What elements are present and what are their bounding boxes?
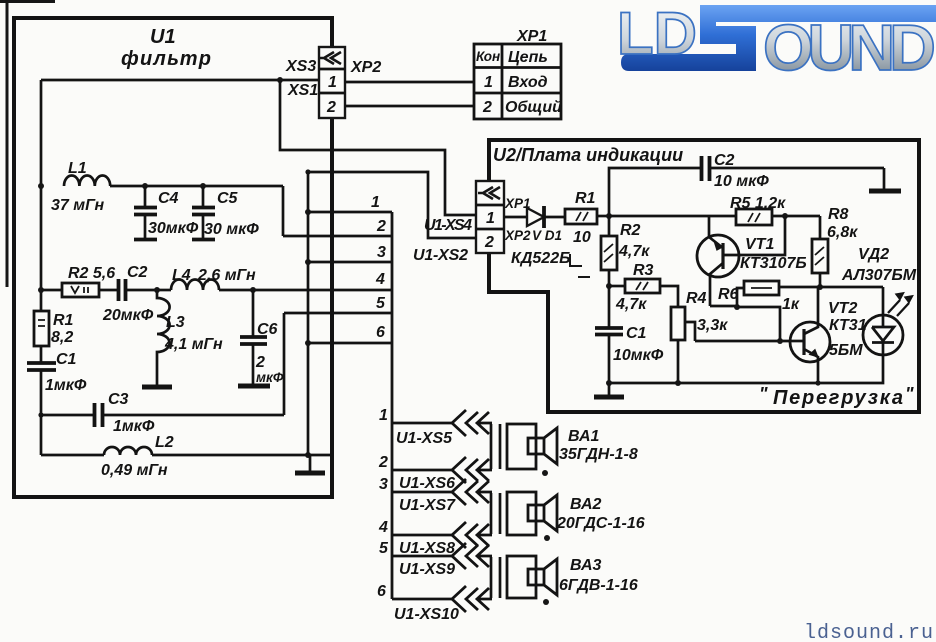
plug arrow in cell xyxy=(478,187,500,199)
svg-text:С1: С1 xyxy=(56,351,77,368)
capacitor C2 (10 мкФ) xyxy=(702,152,885,190)
svg-text:R2 5,6: R2 5,6 xyxy=(68,265,115,282)
wire ladder row2 xyxy=(283,235,392,238)
resistor R8 (6,8к) vertical xyxy=(812,206,858,287)
plug/socket U1-XS5 xyxy=(452,410,492,436)
svg-text:10: 10 xyxy=(573,229,591,246)
capacitor C6 (2мкФ) xyxy=(240,290,284,385)
leader marks xyxy=(570,254,582,266)
wire ladder row5 xyxy=(284,312,392,315)
transistor VT1 КТ3107Б xyxy=(697,216,807,306)
diode VD1 КД522Б xyxy=(511,206,590,277)
node dot row6 xyxy=(305,340,311,346)
wire R1 to node xyxy=(597,215,609,218)
resistor R1 (10) xyxy=(565,190,597,246)
node dot row1 xyxy=(305,209,311,215)
svg-text:XP1: XP1 xyxy=(516,28,547,45)
svg-text:ВА2: ВА2 xyxy=(570,496,602,513)
wire C1 node down xyxy=(40,415,43,455)
svg-text:R3: R3 xyxy=(633,262,654,279)
capacitor C2 (20мкФ) xyxy=(102,264,157,324)
svg-text:": " xyxy=(905,384,914,404)
plug/socket U1-XS8 xyxy=(452,522,492,548)
wire L1 row xyxy=(110,185,283,188)
resistor R1 (8,2) vertical xyxy=(34,311,74,346)
svg-text:1: 1 xyxy=(379,407,388,424)
svg-text:КТ3107Б: КТ3107Б xyxy=(740,255,807,272)
svg-text:3,3к: 3,3к xyxy=(697,317,728,334)
svg-text:1к: 1к xyxy=(782,296,800,313)
node dot C1 bottom xyxy=(38,412,43,417)
tap 2 wire xyxy=(392,469,452,472)
loudspeaker BA2 20ГДС-1-16 xyxy=(491,492,645,541)
svg-text:1мкФ: 1мкФ xyxy=(45,377,87,394)
svg-text:XS1: XS1 xyxy=(287,82,318,99)
svg-text:VT1: VT1 xyxy=(745,236,774,253)
svg-text:1мкФ: 1мкФ xyxy=(113,418,155,435)
plug arrow in XS3 cell xyxy=(320,52,341,64)
svg-text:4: 4 xyxy=(375,271,385,288)
svg-text:30мкФ: 30мкФ xyxy=(148,220,199,237)
svg-text:": " xyxy=(759,384,768,404)
svg-text:R2: R2 xyxy=(620,222,641,239)
svg-text:OUND: OUND xyxy=(763,11,936,84)
capacitor C3 (1мкФ) xyxy=(95,391,155,435)
LDSound logo xyxy=(617,0,936,84)
svg-text:XS3: XS3 xyxy=(285,58,316,75)
svg-text:С2: С2 xyxy=(714,152,735,169)
wire emitter rail xyxy=(609,381,883,383)
node dot rail C1 xyxy=(606,380,612,386)
wire node to R5 xyxy=(609,215,736,218)
svg-text:1: 1 xyxy=(484,74,493,91)
wire ladder row3 xyxy=(308,261,392,264)
svg-text:6ГДВ-1-16: 6ГДВ-1-16 xyxy=(559,577,638,594)
table XP1 xyxy=(474,28,562,119)
svg-text:Кон: Кон xyxy=(476,49,500,64)
svg-text:2: 2 xyxy=(484,234,494,251)
wire pin1 to VD1 xyxy=(504,216,527,219)
wire XS3 pin1 to XP1 table xyxy=(345,81,474,84)
plug/socket U1-XS9 xyxy=(452,543,492,569)
ground rail U2 xyxy=(594,383,624,397)
svg-text:U1: U1 xyxy=(150,26,176,48)
resistor R5 (1.2к) xyxy=(730,195,820,225)
svg-text:LD: LD xyxy=(617,0,697,67)
svg-text:U1-XS2: U1-XS2 xyxy=(413,247,468,264)
loudspeaker BA1 35ГДН-1-8 xyxy=(491,424,638,476)
svg-text:L2: L2 xyxy=(155,434,174,451)
svg-text:мкФ: мкФ xyxy=(256,370,284,385)
node dot L3 top xyxy=(154,287,160,293)
svg-text:4,1 мГн: 4,1 мГн xyxy=(164,336,223,353)
resistor R6 (1к) xyxy=(718,281,883,313)
svg-text:L4: L4 xyxy=(172,267,191,284)
wire common bus x308 xyxy=(307,172,310,455)
node dot R5 right xyxy=(782,213,788,219)
node dot base VT2 xyxy=(777,338,783,344)
ground bottom right of U1 xyxy=(295,455,325,473)
svg-text:U1-XS6: U1-XS6 xyxy=(399,475,455,492)
svg-text:4,7к: 4,7к xyxy=(615,296,647,313)
svg-text:L1: L1 xyxy=(68,160,87,177)
inductor L3 (vertical) xyxy=(157,290,223,386)
node dot R8 bottom xyxy=(817,284,823,290)
svg-text:3: 3 xyxy=(377,244,386,261)
svg-text:R5 1.2к: R5 1.2к xyxy=(730,195,786,212)
loudspeaker BA3 6ГДВ-1-16 xyxy=(491,556,638,605)
node dot rail VT2 xyxy=(815,380,820,385)
wire bus to U1-XS4 pin2 xyxy=(308,172,476,238)
wire collector node to VT2 base riser xyxy=(737,307,780,341)
inductor L1 xyxy=(64,176,110,187)
svg-text:ВА1: ВА1 xyxy=(568,428,600,445)
wire cable bundle vertical xyxy=(391,212,394,599)
svg-text:3: 3 xyxy=(379,476,388,493)
svg-text:Вход: Вход xyxy=(508,74,548,91)
svg-text:R6: R6 xyxy=(718,286,739,303)
svg-text:Цепь: Цепь xyxy=(508,49,548,66)
svg-text:фильтр: фильтр xyxy=(121,48,211,70)
svg-text:R1: R1 xyxy=(53,312,74,329)
svg-text:2: 2 xyxy=(378,454,388,471)
svg-text:35ГДН-1-8: 35ГДН-1-8 xyxy=(559,446,638,463)
plug/socket U1-XS6 xyxy=(452,457,492,483)
scan edge artifact left xyxy=(6,0,9,287)
wire VT1 collector row xyxy=(710,288,744,306)
capacitor C1 (1мкФ) xyxy=(27,346,87,415)
svg-text:R8: R8 xyxy=(828,206,849,223)
tap 3 wire xyxy=(392,491,452,494)
wire node y80 to U1-XS4 pin1 xyxy=(280,80,476,215)
svg-text:4: 4 xyxy=(378,519,388,536)
inductor L2 (0,49 мГн) xyxy=(41,434,331,479)
wire C1 to C3 xyxy=(41,414,94,417)
ground under C6 xyxy=(238,384,270,389)
node dot C4 xyxy=(142,183,148,189)
node dot R2 row xyxy=(38,287,44,293)
svg-text:10 мкФ: 10 мкФ xyxy=(714,173,769,190)
svg-text:ldsound.ru: ldsound.ru xyxy=(804,622,934,642)
node dot L1 row xyxy=(38,183,44,189)
svg-text:5: 5 xyxy=(376,295,386,312)
capacitor C5 xyxy=(192,186,259,240)
connector XS3/XS1 with plug XP2 xyxy=(285,47,381,118)
svg-text:U1-XS8: U1-XS8 xyxy=(399,540,455,557)
wire jog to ladder row2 xyxy=(282,186,285,236)
svg-text:1: 1 xyxy=(371,194,380,211)
svg-text:ВА3: ВА3 xyxy=(570,557,602,574)
svg-text:6,8к: 6,8к xyxy=(827,224,858,241)
svg-text:2: 2 xyxy=(376,218,386,235)
svg-text:V D1: V D1 xyxy=(532,228,562,243)
node dot R2 bottom xyxy=(606,283,612,289)
svg-text:КТ31: КТ31 xyxy=(829,317,867,334)
svg-text:L3: L3 xyxy=(166,314,185,331)
svg-text:5: 5 xyxy=(379,540,389,557)
resistor R4 (3,3к) vertical with tap xyxy=(671,290,728,383)
svg-text:АЛ307БМ: АЛ307БМ xyxy=(841,267,917,284)
svg-text:10мкФ: 10мкФ xyxy=(613,347,664,364)
svg-text:С2: С2 xyxy=(127,264,148,281)
resistor R2 (4,7к) vertical xyxy=(601,216,650,286)
tap 1 wire xyxy=(392,422,452,425)
transistor VT2 КТ315БМ xyxy=(790,287,867,383)
svg-text:VД2: VД2 xyxy=(858,246,889,263)
LED VD2 АЛ307БМ xyxy=(841,246,917,381)
svg-text:1: 1 xyxy=(486,210,495,227)
node dot row3 xyxy=(305,259,311,265)
plug/socket U1-XS10 xyxy=(452,586,492,612)
svg-text:5БМ: 5БМ xyxy=(829,342,863,359)
svg-text:С5: С5 xyxy=(217,190,239,207)
wire R4 tap to VT2 base xyxy=(695,340,791,343)
wire ladder row1 xyxy=(308,211,392,214)
svg-text:2: 2 xyxy=(326,99,336,116)
wire R2 to C2 xyxy=(99,289,117,292)
svg-text:XP2: XP2 xyxy=(504,228,531,243)
wire input vertical x41 xyxy=(40,80,43,311)
scan edge artifact top xyxy=(0,0,55,3)
svg-text:U1-XS7: U1-XS7 xyxy=(399,497,456,514)
svg-text:20ГДС-1-16: 20ГДС-1-16 xyxy=(556,515,645,532)
tap 4 wire xyxy=(392,534,452,537)
svg-text:С4: С4 xyxy=(158,190,179,207)
node dot bus top xyxy=(305,169,310,174)
wire R2 row lead xyxy=(41,289,62,292)
svg-text:U1-XS5: U1-XS5 xyxy=(396,430,453,447)
tap 6 wire xyxy=(392,598,452,601)
svg-text:R4: R4 xyxy=(686,290,707,307)
svg-text:КД522Б: КД522Б xyxy=(511,250,570,267)
node dot C5 xyxy=(200,183,206,189)
svg-text:6: 6 xyxy=(376,324,385,341)
plug/socket U1-XS7 xyxy=(452,479,492,505)
svg-text:2: 2 xyxy=(255,354,265,371)
svg-text:С3: С3 xyxy=(108,391,129,408)
wire L4 to ladder row4 xyxy=(219,289,392,292)
svg-text:С1: С1 xyxy=(626,325,647,342)
svg-text:С6: С6 xyxy=(257,321,278,338)
ground top right xyxy=(869,168,901,191)
node dot on y80 xyxy=(277,77,283,83)
svg-text:Общий: Общий xyxy=(505,99,562,116)
svg-text:U1-XS9: U1-XS9 xyxy=(399,561,455,578)
svg-text:30 мкФ: 30 мкФ xyxy=(204,221,259,238)
svg-text:0,49 мГн: 0,49 мГн xyxy=(101,462,168,479)
block U2 Плата индикации outline xyxy=(489,140,919,412)
node dot ground row xyxy=(305,452,311,458)
wire XS3 pin2 to XP1 table xyxy=(345,105,474,108)
node dot C6 top xyxy=(250,287,256,293)
svg-text:6: 6 xyxy=(377,583,386,600)
svg-text:XP2: XP2 xyxy=(350,59,381,76)
inductor L4 xyxy=(171,280,219,291)
svg-text:2,6 мГн: 2,6 мГн xyxy=(197,267,256,284)
tap 5 wire xyxy=(392,555,452,558)
svg-text:Перегрузка: Перегрузка xyxy=(773,387,903,409)
wire C2 branch xyxy=(609,168,701,216)
svg-text:VT2: VT2 xyxy=(828,300,857,317)
svg-text:U1-XS10: U1-XS10 xyxy=(394,606,459,623)
wire ladder row6 xyxy=(308,342,392,345)
svg-text:R1: R1 xyxy=(575,190,596,207)
node dot collector/R6 xyxy=(734,304,740,310)
svg-text:1: 1 xyxy=(328,74,337,91)
capacitor C1 (10мкФ) xyxy=(595,286,664,383)
block U1 (фильтр) outline xyxy=(14,18,332,497)
svg-text:U1-XS4: U1-XS4 xyxy=(424,217,472,234)
ground under L3 xyxy=(142,385,172,390)
wire input y80 xyxy=(41,79,319,82)
svg-text:8,2: 8,2 xyxy=(51,329,73,346)
connector U1-XS4/U1-XS2 xyxy=(413,181,531,264)
resistor R2 (5,6) xyxy=(62,265,115,297)
svg-text:U2/Плата индикации: U2/Плата индикации xyxy=(493,145,683,165)
capacitor C4 xyxy=(134,186,199,240)
node dot R1 out xyxy=(606,213,612,219)
wire riser to ladder row5 xyxy=(283,313,286,415)
svg-text:20мкФ: 20мкФ xyxy=(102,307,154,324)
node dot R4 bottom xyxy=(675,380,681,386)
svg-text:2: 2 xyxy=(482,99,492,116)
resistor R3 (4,7к) xyxy=(609,262,678,313)
svg-text:37 мГн: 37 мГн xyxy=(51,197,105,214)
svg-text:4,7к: 4,7к xyxy=(618,243,650,260)
wire C3 to riser xyxy=(103,414,284,417)
